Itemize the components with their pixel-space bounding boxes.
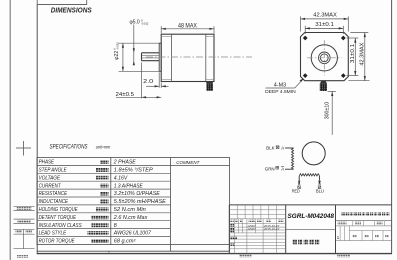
side view centerline (146, 56, 252, 58)
svg-text:BLK: BLK (266, 146, 274, 151)
svg-text:STEP ANGLE: STEP ANGLE (39, 168, 68, 174)
svg-text:2.6 N.cm Max: 2.6 N.cm Max (113, 215, 148, 221)
side lead bundle (206, 83, 213, 90)
phase A wire bottom (285, 168, 294, 170)
shaft end (141, 53, 143, 61)
phase B wire right (319, 176, 321, 181)
frame inner border left (36, 5, 38, 254)
shaft top line (142, 52, 160, 54)
mounting hole bottom-left (303, 73, 308, 78)
doc title cell (293, 239, 297, 244)
arrow right lead (318, 181, 320, 185)
svg-text:SPECIFICATIONS: SPECIFICATIONS (50, 144, 89, 151)
face square with chamfered corners (301, 33, 349, 81)
left grid horizontals (229, 210, 285, 249)
svg-text:AWG26 UL1007: AWG26 UL1007 (113, 231, 151, 237)
dim 48 MAX (161, 26, 214, 33)
svg-text:300±10: 300±10 (325, 102, 331, 120)
front lead bundle (320, 83, 327, 91)
bottom margin tiny marks (239, 255, 252, 257)
svg-text:VOLTAGE: VOLTAGE (39, 175, 61, 181)
bearing hub circle (319, 52, 331, 64)
svg-text:1.8±5% °/STEP: 1.8±5% °/STEP (114, 168, 154, 174)
title block outline (229, 205, 391, 254)
svg-text:-0.012: -0.012 (141, 22, 149, 26)
rear endbell split line (205, 34, 207, 81)
svg-text:48 MAX: 48 MAX (178, 23, 197, 29)
svg-text:A: A (281, 166, 284, 171)
front lead bundle neck (320, 81, 327, 84)
pilot boss (2.0 step) (159, 43, 161, 71)
svg-text:B: B (298, 182, 301, 186)
svg-text:31±0.1: 31±0.1 (315, 22, 334, 28)
sheet row (336, 240, 392, 242)
svg-text:INSULATION CLASS: INSULATION CLASS (39, 223, 83, 229)
frame top notch box (37, 0, 86, 5)
svg-text:52 N.cm Min: 52 N.cm Min (114, 207, 146, 213)
svg-text:HOLDING TORQUE: HOLDING TORQUE (39, 207, 79, 213)
company cell (336, 220, 392, 222)
motor body outline (161, 34, 214, 81)
svg-text:ROTOR TORQUE: ROTOR TORQUE (39, 239, 76, 245)
front centerline vertical (323, 40, 325, 75)
svg-text:68 g.cm²: 68 g.cm² (114, 239, 136, 245)
dim 2.0 (146, 72, 169, 87)
mounting hole top-left (303, 36, 308, 41)
endbell chamfer lines (161, 36, 214, 79)
front endbell split line (170, 34, 172, 81)
svg-text:24±0.5: 24±0.5 (116, 92, 135, 98)
svg-text:unit=mm: unit=mm (96, 144, 111, 149)
phase A coil (vertical) (292, 148, 294, 169)
phase B coil (horizontal) (299, 174, 319, 176)
revision header tiny text (230, 220, 283, 222)
arrow left lead (298, 181, 300, 185)
svg-text:2.0: 2.0 (143, 79, 153, 85)
left grid verticals lower (234, 219, 276, 254)
shaft circle (320, 54, 328, 62)
dim 24 (141, 63, 143, 99)
mounting hole top-right (341, 36, 346, 41)
svg-text:2 PHASE: 2 PHASE (113, 160, 137, 166)
frame outer left border (9, 0, 11, 260)
frame inner border bottom (37, 253, 392, 255)
svg-text:3.2±10% Ω/PHASE: 3.2±10% Ω/PHASE (114, 191, 161, 197)
shaft flat line 2 (142, 57, 160, 59)
phase B wire left (298, 176, 300, 181)
svg-text:4-M3: 4-M3 (274, 82, 287, 88)
bottom fold tick (108, 251, 110, 254)
svg-text:RED: RED (292, 189, 300, 194)
svg-text:SGRL-M042048: SGRL-M042048 (288, 213, 335, 220)
svg-text:RESISTANCE: RESISTANCE (39, 191, 68, 197)
svg-text:B: B (318, 182, 321, 186)
svg-text:φ5.0: φ5.0 (130, 20, 140, 26)
svg-text:ANDY: ANDY (247, 227, 257, 231)
svg-text:COMMENT: COMMENT (176, 160, 200, 166)
leader 4-M3 (266, 79, 304, 88)
front centerline horizontal (307, 57, 342, 59)
dim 42.3MAX right (348, 33, 369, 81)
rotor circle (302, 142, 325, 165)
svg-text:φ22: φ22 (114, 51, 120, 60)
svg-text:DETENT TORQUE: DETENT TORQUE (39, 215, 77, 221)
frame inner border right (391, 0, 393, 254)
side lead bundle neck (206, 82, 213, 84)
shaft flat line 1 (142, 54, 160, 56)
svg-text:1.3 A/PHASE: 1.3 A/PHASE (114, 183, 144, 189)
svg-text:B: B (114, 223, 118, 229)
dim phi5 (133, 25, 135, 65)
svg-text:1: 1 (337, 235, 340, 240)
svg-text:INDUCTANCE: INDUCTANCE (39, 199, 69, 205)
dim 300 wire length (328, 90, 336, 92)
svg-text:LEAD STYLE: LEAD STYLE (39, 231, 67, 237)
table chinese labels (88, 160, 109, 243)
svg-text:BLU: BLU (316, 189, 324, 194)
dim 42.3MAX top (301, 16, 349, 31)
svg-text:GRN: GRN (265, 166, 275, 171)
signature rows (230, 224, 234, 227)
frame centering mark left (16, 141, 31, 156)
dim 31 top (305, 26, 343, 34)
svg-text:31±0.1: 31±0.1 (350, 44, 356, 63)
dim 31 right (347, 38, 359, 76)
svg-text:DIMENSIONS: DIMENSIONS (51, 8, 92, 15)
svg-text:A: A (281, 146, 284, 151)
svg-text:CURRENT: CURRENT (39, 183, 62, 189)
pilot circle (311, 45, 337, 71)
svg-text:42.3MAX: 42.3MAX (359, 42, 365, 65)
table texts (39, 160, 167, 245)
mounting hole bottom-right (341, 73, 346, 78)
svg-text:42.3MAX: 42.3MAX (313, 13, 337, 19)
svg-text:4.16V: 4.16V (114, 175, 128, 181)
svg-text:2015-10-22: 2015-10-22 (263, 227, 280, 231)
svg-text:DEEP 4.5MIN: DEEP 4.5MIN (265, 89, 296, 94)
shaft bottom line (142, 60, 160, 62)
table grid (37, 158, 230, 252)
phase A wire top (285, 147, 294, 149)
stage row (336, 225, 392, 227)
svg-text:-0.033: -0.033 (116, 42, 120, 50)
svg-text:5.5±20% mH/PHASE: 5.5±20% mH/PHASE (114, 199, 167, 205)
dim phi22 (119, 43, 160, 71)
left grid verticals upper (237, 205, 277, 219)
svg-text:PHASE: PHASE (39, 160, 55, 166)
